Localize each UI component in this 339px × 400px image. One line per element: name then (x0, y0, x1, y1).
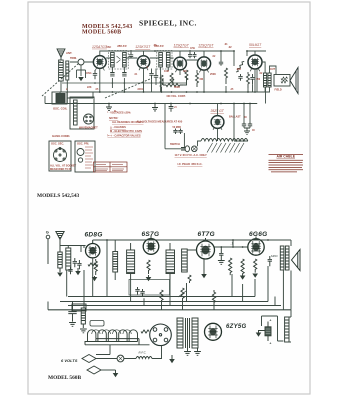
tube V2 12SK7GT (137, 56, 149, 68)
socket B text column (85, 147, 93, 168)
gang condenser dashed line (42, 63, 79, 96)
cap C15 (268, 256, 272, 266)
tube V1 12SA7GT (93, 56, 106, 69)
wire osc box link (67, 92, 93, 98)
output transformer T3 (264, 73, 272, 87)
misc value labels (95, 46, 276, 132)
svg-text:AIR CABLE: AIR CABLE (277, 154, 296, 158)
junction dots AVC (94, 82, 162, 84)
tube V12 6T7G (197, 238, 215, 259)
RFC coil (136, 357, 152, 359)
resistor R14 (160, 290, 163, 302)
svg-text:ANT.: ANT. (66, 51, 72, 55)
pilot lamp bottom (117, 355, 124, 362)
AVC resistor R1 (160, 75, 163, 91)
ground center bottom (169, 355, 175, 363)
coupling network cap C9 (238, 74, 242, 81)
cap C13 (140, 289, 144, 296)
wire osc (107, 240, 115, 296)
cathode resistor R6 (247, 72, 250, 88)
ground antenna (57, 268, 63, 277)
electrolytic C8 (248, 122, 252, 128)
svg-text:456 KC: 456 KC (116, 44, 128, 48)
socket view box B (75, 141, 95, 172)
pilot lamp (192, 146, 198, 152)
filter caps 50MFD (173, 129, 182, 135)
svg-text:47Ω: 47Ω (190, 47, 195, 50)
svg-text:WAVEMAGNET: WAVEMAGNET (79, 126, 98, 130)
tube V14 6ZY5G (205, 323, 222, 340)
svg-text:OSC: OSC (106, 46, 111, 49)
gang dashed line 2 (105, 79, 150, 98)
svg-text:6T7G: 6T7G (198, 231, 215, 238)
svg-text:OSC. COIL: OSC. COIL (53, 107, 68, 111)
detector capacitor Cd2 (154, 72, 158, 81)
coupling caps C12 (135, 287, 139, 295)
svg-text:MODEL 560B: MODEL 560B (48, 375, 82, 381)
shield box volume area (129, 280, 170, 296)
svg-text:12SK7GT: 12SK7GT (135, 45, 151, 49)
svg-text:12SQ7GT: 12SQ7GT (198, 44, 214, 48)
svg-text:6G6G: 6G6G (249, 231, 268, 238)
svg-text:TRIM.: TRIM. (70, 57, 77, 60)
detector capacitor Cd1 (149, 70, 153, 79)
trimmer capacitor C11 (77, 260, 81, 269)
bus wire upper B- (60, 91, 250, 93)
wire left risers (45, 92, 67, 104)
svg-text:.006: .006 (236, 68, 241, 71)
svg-text:12SQ7GT: 12SQ7GT (174, 44, 190, 48)
svg-text:6D8G: 6D8G (85, 231, 103, 238)
resistor R17 + ground (252, 259, 258, 278)
buffer resistor R18 (141, 330, 149, 333)
bypass capacitor C5 (250, 74, 254, 84)
tuning coil L11 (66, 248, 71, 270)
bus wire AVC (62, 82, 186, 84)
hash coil L14 (80, 308, 87, 333)
wire av line (188, 240, 248, 250)
junction dots top rail (130, 50, 248, 52)
svg-text:* - VOLTAGES ±20%: * - VOLTAGES ±20% (107, 112, 131, 115)
diode load resistor R3 (185, 70, 188, 85)
line cord plug (181, 146, 190, 152)
speaker cone bottom (292, 250, 301, 271)
cap Ca1 (68, 267, 72, 274)
battery diamond P2 (87, 366, 101, 374)
antenna bottom (56, 232, 64, 253)
svg-text:MODELS 542,543: MODELS 542,543 (37, 193, 80, 199)
vibrator socket (150, 324, 172, 346)
diode coil L13 (182, 249, 188, 272)
IF transformer T2 (157, 51, 172, 70)
grid resistor R4 (196, 70, 199, 87)
svg-text:.05: .05 (153, 43, 157, 47)
svg-text:OSC. PRI.: OSC. PRI. (77, 142, 89, 146)
volume pot R13 (178, 288, 186, 301)
socket view box A (49, 141, 71, 171)
screen bypass cap C1a (93, 70, 97, 79)
bus wires bottom (48, 297, 291, 310)
wire rectifier (165, 104, 248, 149)
top rail bottom schematic (93, 239, 291, 246)
filter cap C16 + ground (68, 302, 76, 327)
wave magnet box (70, 97, 94, 129)
tube V4 12J5GT (197, 57, 210, 70)
ground chassis 1 (106, 104, 112, 110)
svg-text:M - ELECTROLYTIC CAPS: M - ELECTROLYTIC CAPS (110, 129, 142, 133)
speaker cone (290, 68, 298, 94)
ground electrolytics (244, 128, 250, 134)
switch box (72, 304, 86, 311)
IF2 secondary stub (161, 67, 169, 92)
resistor R16 + ground (240, 259, 246, 280)
antenna ANT (57, 49, 65, 60)
svg-text:6 VOLTS: 6 VOLTS (61, 358, 78, 363)
resistor R15 (229, 258, 232, 275)
electrolytic block C17 (265, 319, 272, 346)
coupling capacitor C-top1 (129, 52, 133, 58)
cathode resistor R10 (94, 259, 97, 275)
bus wire lower (45, 103, 257, 105)
grid wire antenna to tube (60, 246, 86, 253)
grid capacitor Cg1 (188, 52, 192, 58)
svg-text:.01: .01 (224, 42, 228, 46)
svg-text:150: 150 (256, 78, 261, 81)
svg-text:BALLAST: BALLAST (229, 116, 241, 119)
relay box (90, 321, 104, 327)
osc coil L12 (113, 252, 118, 273)
svg-text:△ - CHASSIS: △ - CHASSIS (109, 125, 126, 129)
terminal G (46, 230, 50, 265)
coupling network resistor R7 (236, 61, 244, 72)
svg-text:MFD: MFD (271, 254, 278, 258)
wire choke (287, 310, 291, 342)
alignment table (94, 162, 128, 172)
ground Rk (92, 276, 98, 281)
svg-text:50L6GT: 50L6GT (249, 43, 262, 47)
wire rectifier output loop (262, 316, 284, 341)
junction dots av (220, 246, 243, 248)
svg-text:+: + (270, 342, 272, 346)
svg-text:ON VOL. CONT.: ON VOL. CONT. (167, 94, 186, 98)
grid capacitor Cg2 (193, 52, 197, 58)
wire top rail (100, 51, 266, 60)
ground P2 (113, 370, 119, 377)
output transformer bottom (280, 246, 289, 270)
bus feeders (48, 258, 291, 310)
filter capacitor C6 (169, 104, 178, 112)
svg-text:SWITCH: SWITCH (170, 143, 180, 146)
rectifier tube V6 35Z5GT (211, 116, 224, 129)
svg-text:GANG COND.: GANG COND. (52, 134, 70, 138)
junction dots rail (106, 239, 269, 241)
tube V11 6S7G (143, 236, 159, 254)
IF1 trimmer cap 2 (122, 73, 126, 76)
cathode resistor horizontal Rk (88, 263, 98, 266)
tube stems to bus (100, 56, 255, 92)
volume control R2 (168, 73, 174, 85)
svg-text:6S7G: 6S7G (142, 231, 160, 238)
IF can output (166, 243, 175, 280)
wire left column (67, 246, 84, 309)
svg-text:OSC.: OSC. (86, 72, 92, 75)
padder capacitor C10 (73, 258, 77, 267)
filter choke arches (85, 330, 150, 345)
ground R11 (146, 275, 152, 281)
detector wire column (152, 69, 157, 93)
svg-text:SPIEGEL, INC.: SPIEGEL, INC. (139, 18, 197, 27)
AVC resistor horizontal (163, 83, 183, 86)
svg-text:MODEL 560B: MODEL 560B (82, 29, 121, 35)
IF transformer T1 (109, 51, 129, 70)
legend note block (107, 112, 144, 138)
tube pin stubs (95, 67, 260, 130)
ground chassis 2 (152, 104, 158, 111)
cap C14 + ground (218, 249, 225, 264)
oscillator coil box (52, 92, 67, 104)
tube V5 50L6GT (248, 55, 262, 69)
screen resistor R11 (147, 260, 150, 274)
diode resistor R12 (188, 275, 191, 283)
battery diamond P1 (82, 355, 96, 363)
svg-text:250K: 250K (210, 73, 216, 76)
trimmer capacitor stack (66, 61, 69, 80)
wire loop to gang (59, 62, 68, 92)
loop antenna coil L1 (59, 60, 64, 81)
svg-text:FIELD: FIELD (275, 88, 282, 91)
svg-text:.1: .1 (231, 242, 234, 246)
parts table red (269, 154, 304, 172)
svg-text:MEASURED TO B-: MEASURED TO B- (50, 168, 72, 171)
socket in wave magnet box (84, 114, 94, 124)
svg-text:ALL READINGS 400 OHM/V.: ALL READINGS 400 OHM/V. (112, 121, 144, 124)
ground electrolytic (256, 331, 265, 337)
svg-text:10M: 10M (164, 70, 169, 73)
tube V10 6D8G (86, 240, 100, 258)
tube V13 6G6G (248, 237, 264, 256)
IF can input (127, 243, 135, 280)
wire lamp (96, 358, 136, 360)
wire osc circle drop (77, 65, 86, 81)
wire AVC (163, 76, 187, 85)
heater string ballast (201, 139, 248, 153)
junction dots bus (99, 91, 256, 104)
ground Ca1 (75, 268, 81, 275)
svg-text:500K: 500K (174, 86, 180, 89)
svg-text:6ZY5G: 6ZY5G (226, 324, 247, 330)
svg-text:I.F. PEAK 456 K.C.: I.F. PEAK 456 K.C. (178, 162, 203, 166)
wire P2 ground (101, 369, 116, 371)
svg-text:R.F.C.: R.F.C. (139, 350, 147, 354)
svg-text:OSC. SEC.: OSC. SEC. (51, 142, 64, 146)
svg-text:G: G (46, 230, 49, 235)
ground V12 (201, 259, 207, 278)
IF1 trimmer cap 1 (110, 73, 114, 76)
wire RFC to transformer (96, 345, 162, 359)
svg-text:NOTE:: NOTE: (109, 116, 118, 120)
svg-text:1M: 1M (183, 70, 186, 73)
IF1 secondary stub (112, 67, 124, 92)
plate resistor R5 (225, 68, 228, 84)
svg-text:50 MFD: 50 MFD (173, 126, 182, 129)
junction dots extra (108, 91, 251, 104)
electrolytic C7 (242, 122, 246, 128)
plate leads (106, 58, 197, 60)
svg-text:OUT: OUT (270, 68, 276, 71)
oscillator pad circle (78, 59, 84, 65)
power transformer T10 (177, 318, 198, 348)
wire speaker drop (244, 87, 266, 122)
coupling capacitor C-top2 (219, 60, 223, 66)
speaker field box (274, 75, 290, 87)
dropping resistor R19 (212, 290, 215, 305)
grounds under transformer (184, 348, 201, 355)
svg-text:.0001: .0001 (137, 88, 144, 91)
svg-text:22K: 22K (87, 86, 92, 89)
antenna coil L10 (58, 252, 62, 272)
svg-text:.02: .02 (228, 45, 232, 49)
wire pad to tube (70, 61, 93, 63)
wire output stage (250, 51, 276, 92)
tube V3 12SQ7GT (174, 57, 187, 70)
svg-text:+: + (270, 319, 272, 323)
svg-text:.5M: .5M (199, 78, 203, 81)
speaker field choke (285, 317, 289, 342)
svg-text:117 V. 60 CYC. A.C. ONLY: 117 V. 60 CYC. A.C. ONLY (175, 153, 207, 157)
